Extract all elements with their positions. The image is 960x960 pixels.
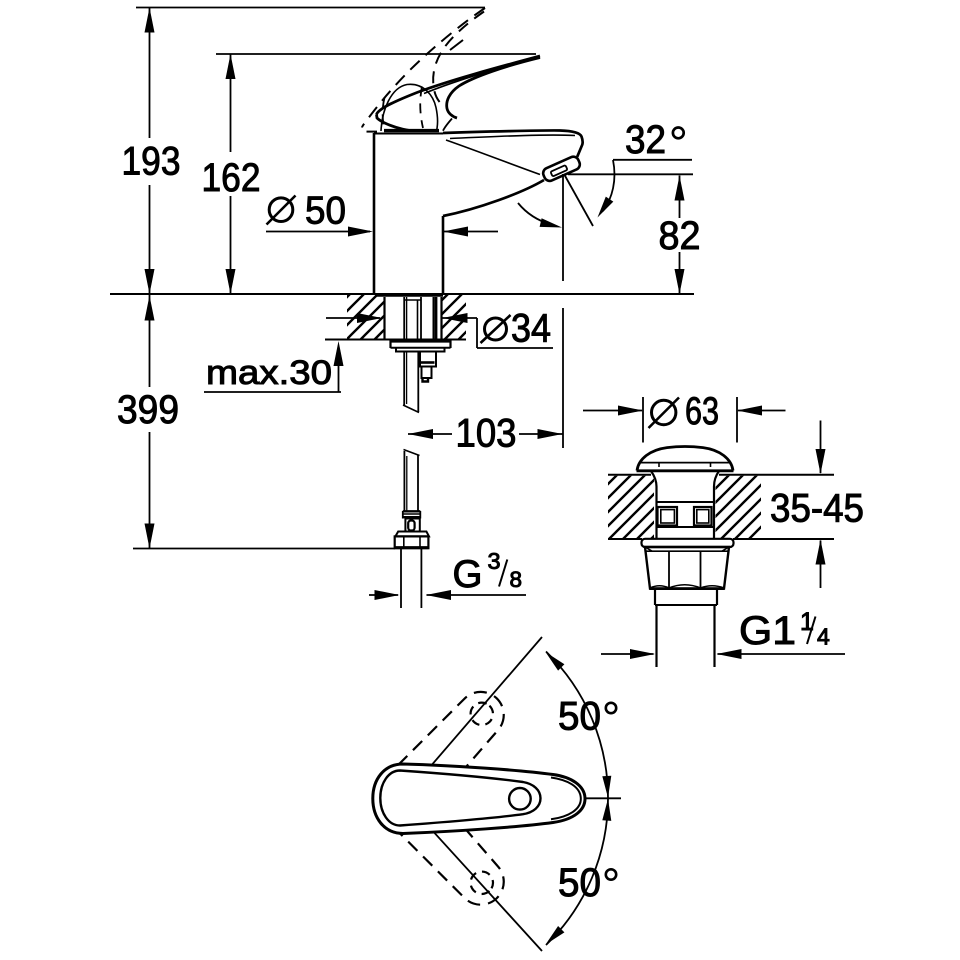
spout inner sweep line xyxy=(446,140,540,175)
svg-text:G1: G1 xyxy=(739,609,796,653)
aerator xyxy=(541,155,581,183)
escutcheon flange tier1 xyxy=(391,342,451,349)
svg-text:162: 162 xyxy=(202,156,261,200)
spout inner top line xyxy=(450,135,575,138)
centerline right xyxy=(586,797,621,799)
hex locknut xyxy=(645,547,729,589)
dome right edge xyxy=(443,119,452,131)
dim O50 label xyxy=(269,198,293,222)
handle inner highlight xyxy=(424,60,529,94)
32 deg arc arrow xyxy=(603,160,614,211)
escutcheon flange tier2 xyxy=(396,348,445,352)
arc arrowhead top xyxy=(546,652,565,671)
vertical line below aerator xyxy=(562,174,564,281)
counter top line (left view) xyxy=(110,293,694,295)
hose break cut xyxy=(403,405,419,413)
drain neck right xyxy=(714,471,719,539)
counter bottom line xyxy=(325,339,466,341)
hose collar xyxy=(403,510,421,512)
arc arrowheads center xyxy=(602,776,611,798)
drain inner lines xyxy=(657,501,715,503)
drain neck left xyxy=(651,471,657,539)
angle arc lower xyxy=(546,798,608,945)
angle leg lower xyxy=(403,798,542,951)
spout top edge xyxy=(443,130,583,156)
angle leg upper xyxy=(403,637,542,798)
angle arc upper xyxy=(546,652,608,799)
faucet body left edge xyxy=(373,133,376,294)
dim O63 xyxy=(583,410,642,412)
svg-text:4: 4 xyxy=(817,624,830,650)
solid handle slot xyxy=(380,771,540,826)
counter bottom line (right view) xyxy=(608,538,642,540)
solid handle outer xyxy=(373,764,585,834)
dim 162 vertical line xyxy=(230,54,232,152)
G3/8 nut body xyxy=(395,536,429,548)
svg-text:399: 399 xyxy=(117,388,179,432)
handle button xyxy=(509,788,531,810)
dim G3/8 arrows xyxy=(369,594,398,596)
handle dome base thick bar xyxy=(384,129,439,132)
ghost handle dashed front edge xyxy=(362,8,485,128)
svg-text:103: 103 xyxy=(456,412,517,456)
collar below nut xyxy=(654,589,656,605)
counter hatch left block xyxy=(347,295,385,339)
supply stud lower xyxy=(422,367,432,379)
dim 193 vertical line xyxy=(149,8,151,139)
svg-text:50: 50 xyxy=(558,861,601,905)
ghost handle inner dash xyxy=(450,40,463,50)
handle top edge xyxy=(377,56,541,115)
spout underside xyxy=(443,180,544,216)
ghost handle rotated up (dashed) xyxy=(365,680,516,837)
dim 35-45 xyxy=(820,421,822,474)
svg-text:82: 82 xyxy=(659,214,701,258)
supply stud upper xyxy=(420,352,436,367)
washer under counter xyxy=(642,539,734,547)
svg-text:G: G xyxy=(453,553,483,596)
32 deg vertex line xyxy=(613,159,692,161)
curved flow arrow at spout xyxy=(518,203,551,225)
arc arrowhead bottom xyxy=(546,926,565,945)
hole right edge xyxy=(440,297,442,340)
counter top line (right view) xyxy=(608,474,651,476)
ghost dome dash right xyxy=(420,87,423,129)
dim ref line 162 level xyxy=(216,53,536,55)
hose crimp with slot xyxy=(405,519,419,532)
ghost handle dashed back edge xyxy=(433,12,484,105)
svg-text:63: 63 xyxy=(685,390,719,433)
svg-text:193: 193 xyxy=(122,140,181,184)
drain cap dome xyxy=(637,447,733,471)
counter hatch right block xyxy=(442,295,467,339)
ghost dome dash left xyxy=(383,98,385,130)
dim 399 vertical line xyxy=(149,295,151,387)
hatch right block xyxy=(716,476,762,539)
82 top reference line xyxy=(568,173,693,175)
dome arc xyxy=(381,84,438,131)
pipe below nut xyxy=(400,549,402,609)
svg-text:8: 8 xyxy=(510,567,523,592)
ghost handle rotated down (dashed) xyxy=(365,760,516,917)
hole left edge xyxy=(383,297,385,340)
body top-left ledge xyxy=(367,131,378,133)
drain tube xyxy=(655,605,657,667)
overflow window right xyxy=(694,507,712,526)
label O63 xyxy=(652,400,676,424)
svg-text:1: 1 xyxy=(800,608,814,636)
svg-text:35-45: 35-45 xyxy=(770,487,864,531)
aerator inner slot xyxy=(550,165,567,176)
faucet body right edge xyxy=(442,216,445,294)
svg-text:max.30: max.30 xyxy=(206,354,332,392)
dim O34 with leader xyxy=(326,317,380,319)
32 deg slanted line xyxy=(564,174,593,226)
faucet base bar on counter xyxy=(375,293,443,296)
dim 82 xyxy=(679,176,681,219)
handle lower edge xyxy=(447,58,540,119)
399 bottom reference line xyxy=(133,548,395,550)
svg-text:34: 34 xyxy=(511,306,551,350)
svg-text:3: 3 xyxy=(488,548,501,574)
svg-text:50: 50 xyxy=(305,190,346,233)
hatch left block xyxy=(608,476,654,539)
svg-text:32: 32 xyxy=(625,118,666,162)
handle front face xyxy=(377,115,410,131)
stud clip detail xyxy=(423,378,429,382)
G3/8 nut chamfer xyxy=(395,532,429,537)
svg-text:50: 50 xyxy=(558,695,601,739)
hose segment 2 xyxy=(404,450,420,456)
dim G1 1/4 xyxy=(601,653,654,655)
dim O50 arrows xyxy=(266,231,370,233)
dim ref line top (193 level) xyxy=(136,7,485,9)
dim 103 xyxy=(408,433,452,435)
shank tube lines xyxy=(403,297,405,340)
solid handle inner cap line xyxy=(551,778,581,820)
hose segment 1 xyxy=(403,352,405,407)
faucet body top edge xyxy=(374,133,443,135)
overflow window left xyxy=(658,507,678,526)
